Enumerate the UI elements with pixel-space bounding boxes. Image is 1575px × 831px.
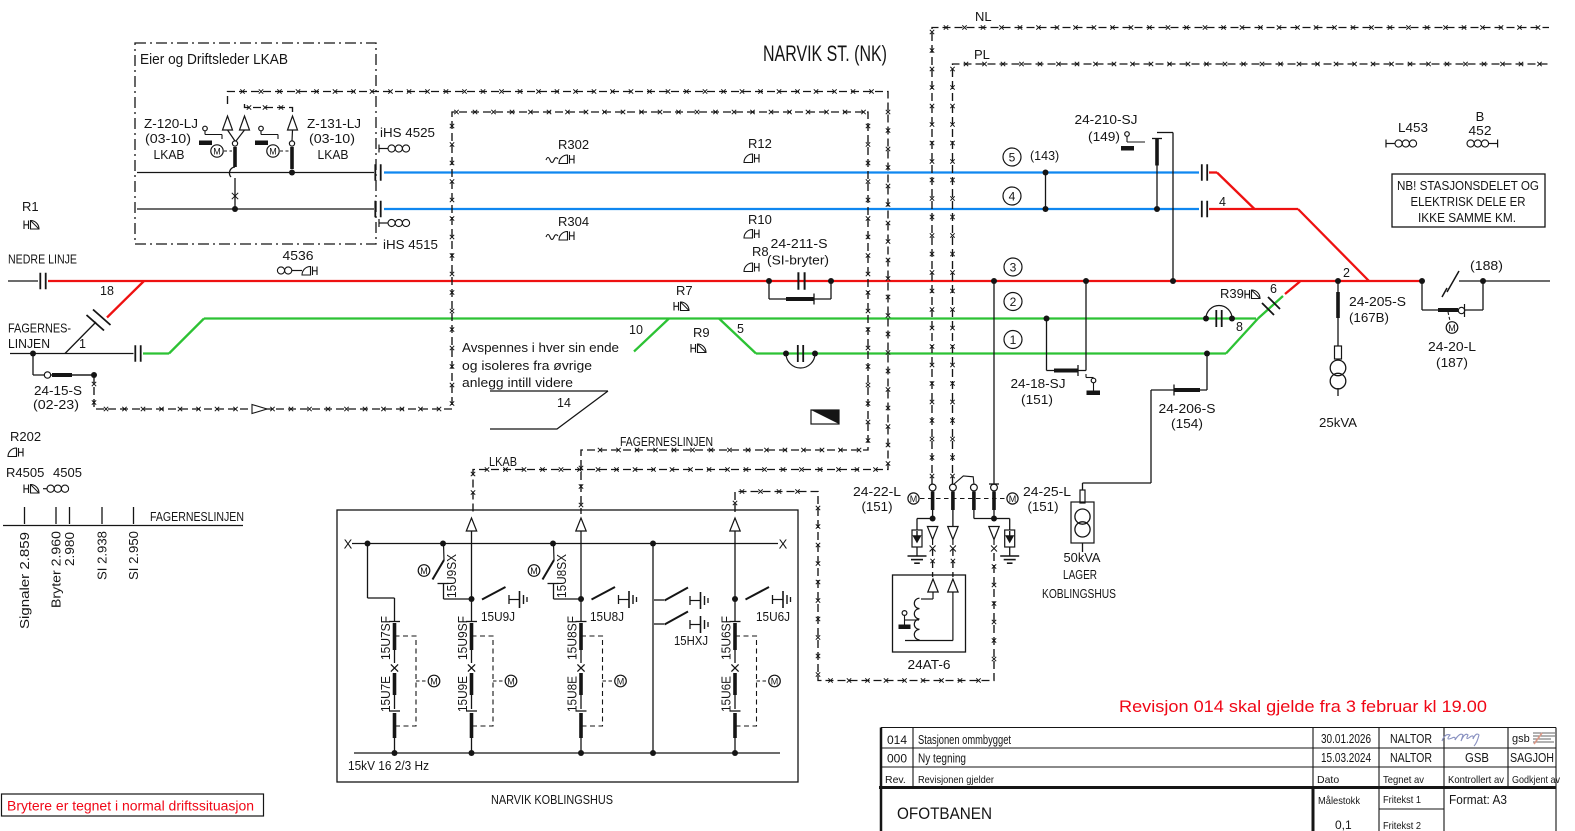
insulator iHS 4525 section break	[374, 164, 376, 181]
disconnector 15HXJ upper blade	[654, 599, 664, 601]
svg-text:Z-131-LJ: Z-131-LJ	[307, 116, 361, 131]
svg-text:Revisjon 014 skal gjelde fra 3: Revisjon 014 skal gjelde fra 3 februar k…	[1119, 697, 1487, 716]
building box NARVIK KOBLINGSHUS	[337, 510, 798, 782]
svg-text:iHS 4525: iHS 4525	[380, 125, 435, 140]
svg-text:15U8E: 15U8E	[566, 676, 580, 712]
wire track 4 red continuation	[1209, 208, 1298, 210]
cable 24-25-L to koblingshus 15U6	[735, 492, 994, 681]
svg-text:R304: R304	[558, 214, 589, 229]
svg-text:3: 3	[1010, 260, 1017, 274]
motor M of 15U7E	[428, 675, 440, 687]
wire 15U8 feeder	[580, 531, 582, 622]
svg-text:M: M	[530, 566, 538, 576]
wire track 5 blue contact line	[384, 171, 1199, 173]
ground below left fuse	[908, 555, 927, 557]
motor M of Z-120-LJ	[211, 145, 223, 157]
svg-text:2: 2	[1010, 295, 1017, 309]
ground below right fuse	[1000, 555, 1019, 557]
svg-text:(03-10): (03-10)	[309, 131, 355, 146]
svg-text:15HXJ: 15HXJ	[674, 634, 708, 648]
wire turnout 10 green stub	[634, 319, 669, 352]
feeder arrow triangle of Z-131	[288, 116, 298, 130]
svg-text:50kVA: 50kVA	[1064, 550, 1101, 565]
svg-text:LKAB: LKAB	[489, 454, 517, 469]
svg-text:NALTOR: NALTOR	[1390, 751, 1432, 765]
svg-text:X: X	[344, 537, 353, 552]
node junction 15U9J	[469, 596, 475, 602]
circuit breaker chain 15U9SF/15U9E	[466, 621, 477, 623]
scale diagram Fagerneslinjen km marks	[3, 525, 243, 527]
node track number 3	[1004, 258, 1022, 276]
wire Fagerneslinjen black line	[10, 353, 134, 355]
svg-text:30.01.2026: 30.01.2026	[1321, 732, 1371, 746]
svg-text:NB! STASJONSDELET OG: NB! STASJONSDELET OG	[1397, 179, 1539, 193]
cable Fagerneslinjen feeder to koblingshus 15U8	[94, 112, 868, 514]
node below pole 1	[932, 510, 934, 519]
earthing contact of 24-18-SJ	[1091, 378, 1096, 383]
wire connector (143)	[1045, 173, 1047, 210]
svg-text:(149): (149)	[1088, 129, 1120, 144]
wire black diagonal to Fagerneslinjen	[65, 322, 96, 354]
wire track 3 red main catenary	[48, 280, 1421, 282]
svg-text:15U7SF: 15U7SF	[379, 616, 393, 660]
svg-text:15U6E: 15U6E	[720, 676, 734, 712]
svg-text:014: 014	[887, 733, 907, 747]
busbar bottom 15kV	[354, 752, 780, 754]
disconnector Z-131-LJ earthing contact	[259, 126, 264, 131]
insulator section break on track 1 with bypass loop	[783, 351, 789, 357]
svg-text:(188): (188)	[1470, 258, 1503, 273]
svg-text:R12: R12	[748, 136, 772, 151]
svg-text:R7: R7	[676, 283, 693, 298]
svg-text:NL: NL	[975, 9, 992, 24]
wire track 2 green contact line	[204, 317, 1256, 319]
svg-text:(SI-bryter): (SI-bryter)	[767, 253, 829, 268]
svg-text:10: 10	[629, 323, 643, 337]
svg-text:R202: R202	[10, 429, 41, 444]
pole circle at 952.9	[950, 484, 957, 491]
svg-text:(03-10): (03-10)	[145, 131, 191, 146]
open bridge blade pole2-pole3	[954, 476, 974, 485]
svg-text:Ny tegning: Ny tegning	[918, 752, 966, 766]
svg-text:R1: R1	[22, 199, 39, 214]
svg-text:24-18-SJ: 24-18-SJ	[1011, 376, 1066, 391]
node 15HXJ on 15kV bus	[650, 750, 656, 756]
svg-text:15U9SX: 15U9SX	[445, 553, 459, 598]
svg-text:Eier og Driftsleder LKAB: Eier og Driftsleder LKAB	[140, 52, 288, 68]
surge arrester pole 1	[927, 527, 937, 540]
svg-text:Målestokk: Målestokk	[1318, 795, 1361, 807]
wire track 5 red continuation and slip to track 4	[1209, 171, 1217, 173]
svg-text:FAGERNESLINJEN: FAGERNESLINJEN	[150, 510, 244, 524]
wire track 4 blue contact line	[384, 208, 1199, 210]
svg-text:X: X	[779, 537, 788, 552]
transformer 25kVA	[1337, 359, 1339, 361]
svg-text:000: 000	[887, 752, 907, 766]
node Z-131 on track 5	[289, 170, 295, 176]
fuse of 25kVA transformer	[1335, 346, 1342, 359]
insulator Fagerneslinjen section break	[134, 345, 136, 362]
svg-text:4: 4	[1009, 189, 1016, 203]
wire to 50kVA transformer	[1150, 390, 1152, 483]
wire turnout 14 symbol	[490, 390, 608, 392]
surge arrester pole 4	[989, 527, 999, 540]
svg-text:LKAB: LKAB	[154, 147, 185, 162]
wire 15HXJ column	[652, 544, 654, 754]
svg-text:(151): (151)	[862, 499, 893, 514]
disconnector Z-131 blade	[289, 141, 294, 146]
svg-text:Godkjent av: Godkjent av	[1512, 774, 1561, 786]
cable 24-22-L pole2 to 24AT-6	[952, 548, 954, 577]
wire turnout 6 red upper part	[1285, 282, 1300, 295]
wire 15U7 feeder jog	[367, 544, 369, 599]
svg-text:5: 5	[1009, 150, 1016, 164]
winding of 24AT-6	[914, 598, 919, 640]
motor M of 24-22-L	[908, 493, 919, 504]
pole circle at 994	[991, 484, 998, 491]
svg-text:15U6SF: 15U6SF	[720, 616, 734, 660]
svg-text:LINJEN: LINJEN	[8, 336, 50, 351]
note box NB! STASJONSDELET	[1392, 174, 1545, 227]
switch 24-20-L motor bypass	[1421, 281, 1423, 310]
svg-text:SI 2.938: SI 2.938	[96, 531, 110, 580]
svg-text:FAGERNESLINJEN: FAGERNESLINJEN	[620, 434, 713, 449]
feeder arrow into koblingshus 15U8	[576, 518, 586, 531]
svg-text:R4505: R4505	[6, 465, 44, 480]
svg-text:FAGERNES-: FAGERNES-	[8, 321, 71, 336]
signature Kontrollert av row 014	[1442, 734, 1479, 746]
mechanism box of 15U9E	[472, 636, 494, 726]
svg-text:Revisjonen gjelder: Revisjonen gjelder	[918, 774, 994, 786]
wire green stub track 1 left	[143, 352, 169, 354]
svg-text:R302: R302	[558, 137, 589, 152]
circuit breaker chain 15U6SF/15U6E	[730, 621, 741, 623]
svg-text:GSB: GSB	[1465, 751, 1489, 765]
node 15U7E on 15kV bus	[392, 750, 398, 756]
svg-text:M: M	[1009, 494, 1017, 504]
svg-text:15U6J: 15U6J	[756, 610, 790, 624]
svg-text:24-210-SJ: 24-210-SJ	[1075, 112, 1138, 127]
svg-text:iHS 4515: iHS 4515	[383, 237, 438, 252]
node 15U6E on 15kV bus	[732, 750, 738, 756]
svg-text:(187): (187)	[1436, 355, 1468, 370]
svg-text:M: M	[771, 676, 779, 686]
svg-text:NEDRE LINJE: NEDRE LINJE	[8, 252, 77, 267]
disconnector 15U8J open blade	[592, 587, 616, 600]
wire 15U9 feeder	[471, 531, 473, 622]
svg-text:LAGER: LAGER	[1063, 567, 1097, 582]
svg-text:Stasjonen ommbygget: Stasjonen ommbygget	[918, 733, 1011, 747]
svg-text:L453: L453	[1398, 120, 1428, 135]
coil iHS 4515	[379, 222, 388, 224]
svg-text:1: 1	[1010, 333, 1017, 347]
insulator iHS 4515 section break	[374, 201, 376, 218]
motor M of 15U9E	[505, 675, 517, 687]
svg-text:15U9E: 15U9E	[456, 676, 470, 712]
svg-text:(02-23): (02-23)	[33, 397, 79, 412]
disconnector 15U9J open blade	[482, 587, 506, 600]
tap and ground of 24AT-6	[902, 611, 907, 616]
node junction 15U8J	[578, 596, 584, 602]
svg-text:Tegnet av: Tegnet av	[1383, 774, 1425, 786]
svg-text:R39: R39	[1220, 286, 1244, 301]
insulator on turnout 6 diagonal	[1262, 297, 1280, 315]
wire turnout 2 red diagonal to main line	[1298, 209, 1369, 281]
wire green diagonal onto track 2	[169, 319, 204, 354]
svg-text:25kVA: 25kVA	[1319, 415, 1357, 430]
pole circle at 973.9	[971, 484, 978, 491]
svg-text:15U7E: 15U7E	[379, 676, 393, 712]
wire track 4 black feeder segment	[137, 208, 374, 210]
landmark flag symbol	[811, 410, 839, 424]
svg-text:Brytere er tegnet i normal dri: Brytere er tegnet i normal driftssituasj…	[7, 799, 254, 814]
svg-text:15U9SF: 15U9SF	[456, 616, 470, 660]
node on track 4	[232, 206, 238, 212]
insulator track 4 right section break	[1201, 201, 1203, 218]
svg-text:B: B	[1476, 109, 1485, 124]
svg-text:NARVIK KOBLINGSHUS: NARVIK KOBLINGSHUS	[491, 792, 613, 807]
feeder arrow into koblingshus 15U6	[730, 518, 740, 531]
wire turnout 5 green diagonal	[719, 319, 756, 354]
svg-text:M: M	[269, 146, 277, 156]
wire 24AT-6 internal left	[932, 592, 934, 599]
surge arrester pole 2	[952, 510, 954, 527]
wire 15U6 feeder	[734, 531, 736, 622]
wire black line right of switch 188	[1459, 280, 1550, 282]
svg-text:15U8SX: 15U8SX	[555, 553, 569, 598]
node Fagerneslinjen junction	[30, 351, 36, 357]
svg-text:PL: PL	[974, 47, 990, 62]
svg-text:NARVIK ST. (NK): NARVIK ST. (NK)	[763, 41, 887, 66]
svg-text:ELEKTRISK DELE ER: ELEKTRISK DELE ER	[1411, 195, 1526, 209]
wire pole 3 to pole 4	[973, 510, 975, 519]
svg-text:Z-120-LJ: Z-120-LJ	[144, 116, 198, 131]
svg-text:24-15-S: 24-15-S	[34, 383, 82, 398]
svg-text:NALTOR: NALTOR	[1390, 732, 1432, 746]
autotransformer 24AT-6 box	[893, 575, 966, 652]
fuse left of 24-22-L	[912, 530, 922, 547]
svg-text:24-211-S: 24-211-S	[771, 236, 828, 251]
mechanism box of 15U7E	[395, 636, 417, 726]
svg-text:4505: 4505	[53, 465, 82, 480]
svg-text:5: 5	[737, 322, 744, 336]
wire Z-131 triangle to blade pivot	[291, 130, 294, 141]
svg-text:4: 4	[1219, 195, 1226, 209]
insulator R39 section break on track 2	[1203, 316, 1209, 322]
svg-text:Kontrollert av: Kontrollert av	[1448, 774, 1505, 786]
insulator on Fagernes diagonal	[87, 310, 111, 331]
svg-text:24-25-L: 24-25-L	[1023, 484, 1071, 499]
disconnector 15HXJ lower blade	[654, 623, 664, 625]
svg-text:1: 1	[79, 337, 86, 351]
svg-text:(151): (151)	[1028, 499, 1059, 514]
svg-text:(151): (151)	[1021, 392, 1053, 407]
node 15U7 on X bus	[365, 541, 371, 547]
svg-text:Bryter 2.960: Bryter 2.960	[50, 531, 64, 608]
wire track1/track2 green merge diagonal	[1226, 319, 1258, 354]
svg-text:24-205-S: 24-205-S	[1349, 294, 1406, 309]
svg-text:2: 2	[1343, 266, 1350, 280]
svg-text:Rev.: Rev.	[885, 774, 906, 786]
svg-text:6: 6	[1270, 282, 1277, 296]
svg-text:R10: R10	[748, 212, 772, 227]
cable PL positive feeder	[953, 64, 1550, 485]
motor M of 24-25-L	[1007, 493, 1018, 504]
revision table	[879, 728, 1556, 831]
svg-text:M: M	[430, 676, 438, 686]
disconnector Z-120-LJ earthing contact	[203, 126, 208, 131]
svg-text:anlegg intill videre: anlegg intill videre	[462, 375, 573, 390]
svg-text:(167B): (167B)	[1349, 310, 1389, 325]
svg-text:M: M	[213, 146, 221, 156]
disconnector Z-120 blade	[232, 141, 237, 146]
svg-text:R9: R9	[693, 325, 710, 340]
node below pole 4	[993, 510, 995, 519]
motor M of Z-131-LJ	[267, 145, 279, 157]
disconnector 15U9SX	[440, 541, 446, 547]
svg-text:M: M	[507, 676, 515, 686]
svg-text:15U8SF: 15U8SF	[566, 616, 580, 660]
wire Nedre linje black stub	[8, 280, 38, 282]
wire turnout 18 red diagonal	[107, 281, 144, 318]
circuit breaker chain 15U7SF/15U7E	[389, 621, 400, 623]
svg-text:(154): (154)	[1171, 416, 1203, 431]
svg-text:15.03.2024: 15.03.2024	[1321, 751, 1371, 765]
svg-text:24AT-6: 24AT-6	[908, 657, 951, 672]
motor M of 15U6E	[769, 675, 781, 687]
svg-text:Fritekst 1: Fritekst 1	[1383, 794, 1421, 806]
svg-text:18: 18	[100, 284, 114, 298]
wire 24AT-6 internal bottom	[905, 640, 953, 642]
svg-text:Dato: Dato	[1317, 774, 1339, 786]
svg-text:SI 2.950: SI 2.950	[127, 531, 141, 580]
wire track 1 green contact line	[756, 352, 1226, 354]
insulator track 5 right section break	[1201, 164, 1203, 181]
node 15U9E on 15kV bus	[469, 750, 475, 756]
svg-text:24-20-L: 24-20-L	[1428, 339, 1476, 354]
node junction 15U6J	[732, 596, 738, 602]
cable NL negative feeder	[932, 28, 1549, 486]
node track number 5	[1003, 148, 1021, 166]
feeder tick above pole 4	[989, 483, 999, 485]
feeder arrow triangle 1 of Z-120	[223, 116, 233, 130]
svg-text:M: M	[617, 676, 625, 686]
svg-text:LKAB: LKAB	[318, 147, 349, 162]
svg-text:Format: A3: Format: A3	[1449, 792, 1507, 807]
svg-text:452: 452	[1469, 123, 1492, 138]
svg-text:IKKE SAMME KM.: IKKE SAMME KM.	[1418, 211, 1516, 225]
dashed drive shaft 24-22-L row	[920, 498, 1006, 500]
svg-text:24-22-L: 24-22-L	[853, 484, 901, 499]
node 15HXJ on X bus	[650, 541, 656, 547]
wire track 5 black feeder segment	[137, 172, 374, 174]
disconnector 15U8SX	[550, 541, 556, 547]
svg-text:M: M	[1448, 323, 1456, 333]
pole circle at 932.6	[929, 484, 936, 491]
svg-text:15kV 16 2/3 Hz: 15kV 16 2/3 Hz	[348, 758, 429, 773]
wire red main line to pole 4	[993, 281, 995, 484]
cable link Z-120 to Z-131	[245, 104, 293, 114]
wire Z-120 blade to track 4	[234, 178, 236, 209]
feeder arrow into koblingshus 15U9	[466, 518, 476, 531]
disconnector 15U6J open blade	[746, 587, 770, 600]
svg-text:(143): (143)	[1030, 149, 1059, 163]
transformer 50kVA LAGER	[1071, 502, 1094, 543]
mechanism box of 15U8E	[581, 636, 603, 726]
cable 24-22-L pole1 to 24AT-6	[932, 548, 934, 577]
svg-text:Fritekst 2: Fritekst 2	[1383, 820, 1421, 831]
svg-text:15U9J: 15U9J	[481, 610, 515, 624]
svg-text:2.980: 2.980	[63, 532, 77, 566]
svg-text:14: 14	[557, 396, 571, 410]
wire turnout 6 green diagonal	[1258, 296, 1283, 319]
node track number 4	[1003, 187, 1021, 205]
motor M of 15U8E	[615, 675, 627, 687]
circuit breaker chain 15U8SF/15U8E	[576, 621, 587, 623]
svg-text:og isoleres fra øvrige: og isoleres fra øvrige	[462, 358, 592, 373]
svg-text:15U8J: 15U8J	[590, 610, 624, 624]
wire V link triangles to Z-120 blade pivot	[228, 130, 236, 141]
svg-text:Avspennes i hver sin ende: Avspennes i hver sin ende	[462, 340, 619, 355]
arrow on Fagerneslinjen cable	[252, 405, 267, 414]
svg-text:24-206-S: 24-206-S	[1159, 401, 1216, 416]
hop over track 5	[229, 167, 235, 177]
svg-text:8: 8	[1236, 320, 1243, 334]
svg-text:0,1: 0,1	[1335, 818, 1352, 831]
svg-text:Signaler 2.859: Signaler 2.859	[18, 532, 32, 629]
node track number 2	[1004, 293, 1022, 311]
svg-text:KOBLINGSHUS: KOBLINGSHUS	[1042, 586, 1116, 601]
feeder arrow into 24AT-6 left	[928, 579, 938, 592]
note box Brytere red	[2, 794, 264, 816]
fuse right of 24-25-L	[1005, 530, 1015, 547]
node track number 1	[1004, 331, 1022, 349]
boundary box Eier og Driftsleder LKAB	[135, 43, 376, 244]
svg-text:4536: 4536	[283, 248, 314, 263]
fuse of 50kVA transformer	[1080, 490, 1085, 503]
feeder arrow triangle 2 of Z-120	[240, 116, 250, 130]
node 15U8E on 15kV bus	[578, 750, 584, 756]
svg-text:M: M	[420, 566, 428, 576]
svg-text:gsb: gsb	[1512, 733, 1530, 745]
cable LKAB feeder Z-120 to koblingshus 15U9	[228, 92, 889, 515]
mechanism box of 15U6E	[735, 636, 757, 726]
feeder arrow into 24AT-6 right	[948, 579, 958, 592]
svg-text:SAGJOH: SAGJOH	[1510, 751, 1554, 765]
insulator Nedre linje section break	[39, 273, 41, 290]
svg-text:M: M	[910, 494, 918, 504]
svg-text:OFOTBANEN: OFOTBANEN	[897, 805, 992, 823]
